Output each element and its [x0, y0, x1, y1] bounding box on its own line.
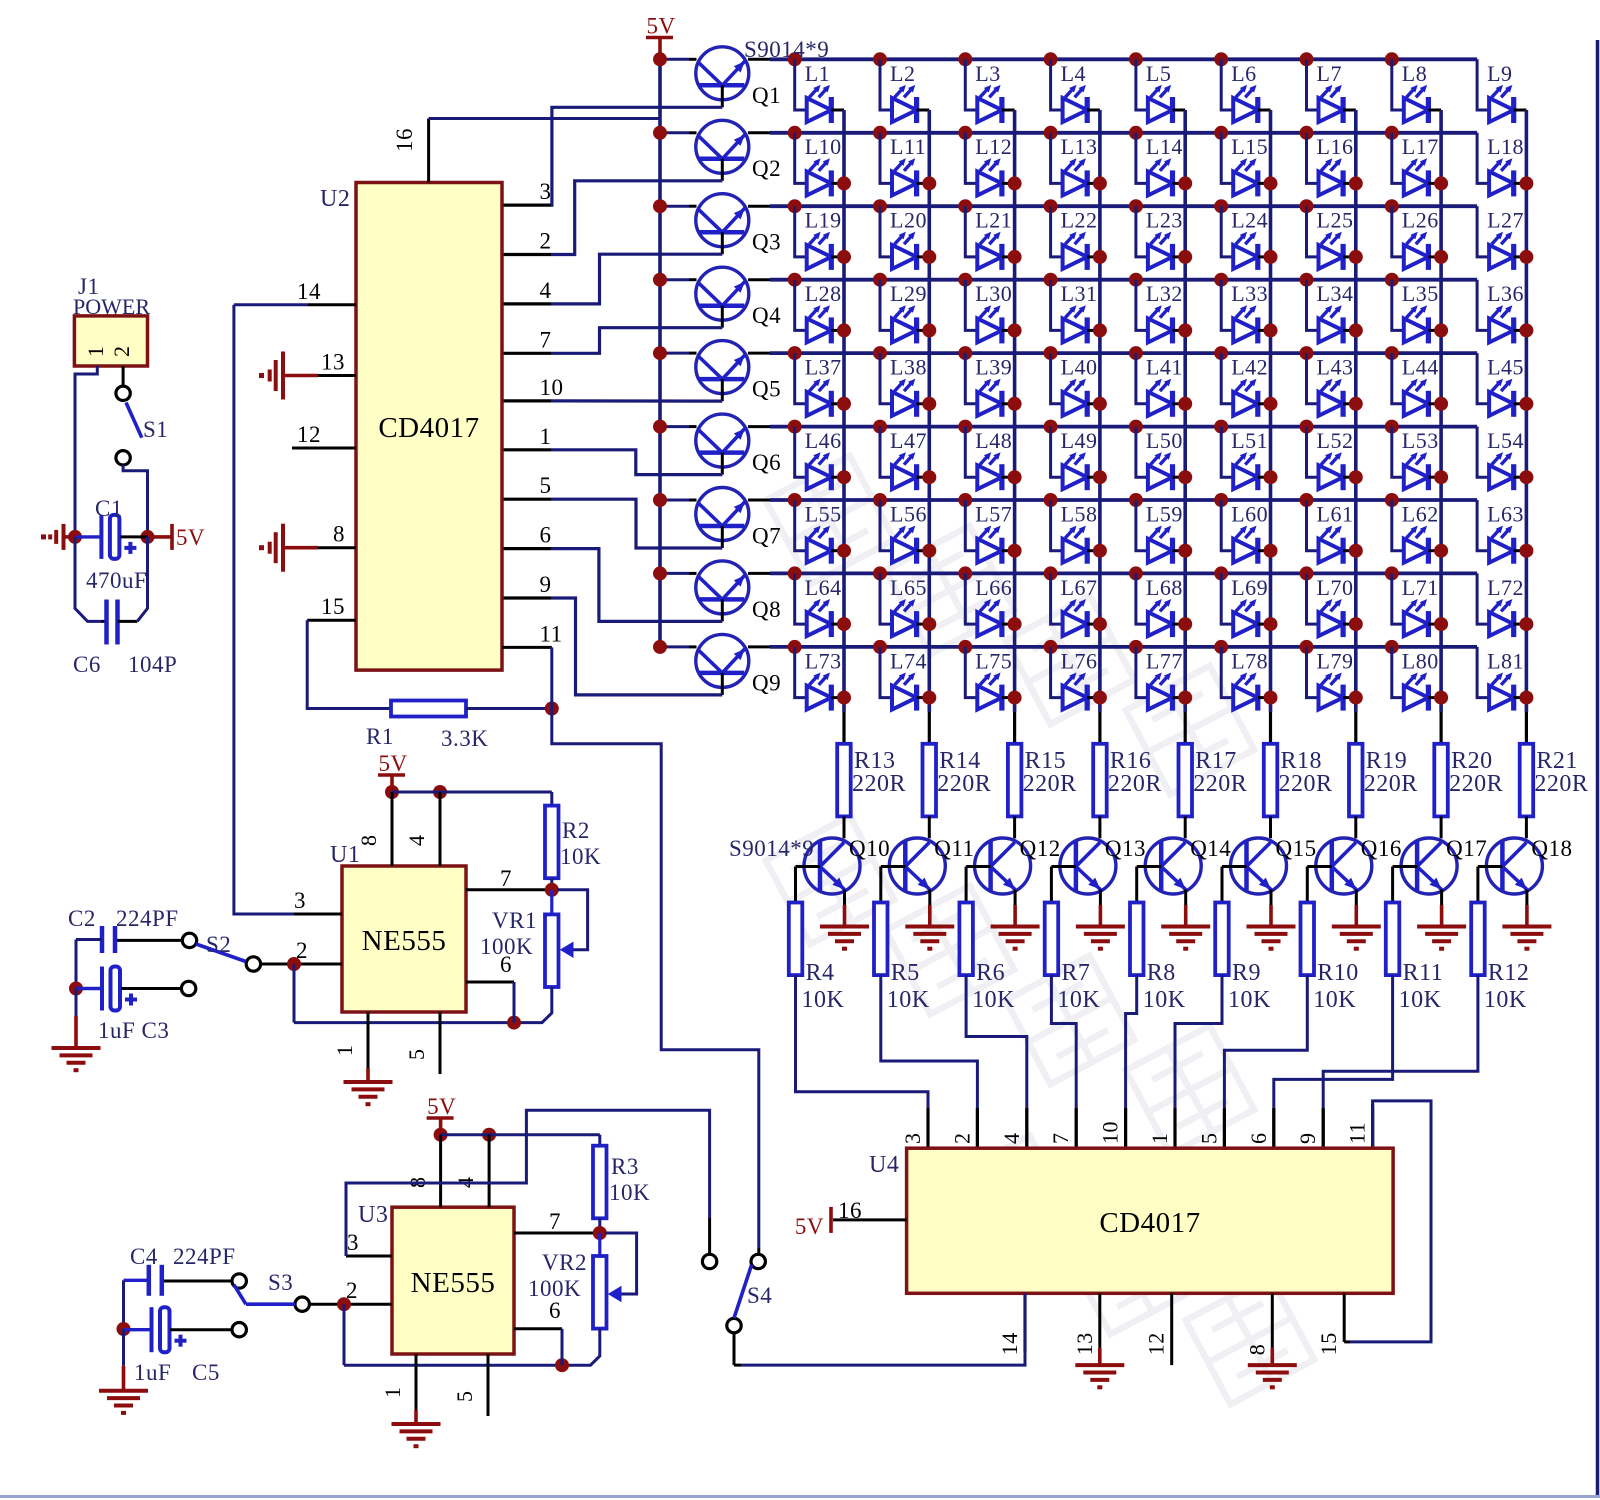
svg-text:R2: R2 [562, 818, 590, 843]
svg-text:L46: L46 [805, 428, 842, 453]
svg-text:L11: L11 [890, 134, 926, 159]
svg-text:220R: 220R [1108, 771, 1162, 797]
svg-text:L74: L74 [890, 648, 927, 673]
svg-text:Q2: Q2 [752, 156, 781, 181]
svg-text:L45: L45 [1487, 355, 1524, 380]
svg-text:L37: L37 [805, 355, 842, 380]
svg-text:3: 3 [900, 1133, 925, 1145]
svg-text:104P: 104P [128, 652, 177, 677]
svg-text:L41: L41 [1146, 355, 1183, 380]
svg-text:L72: L72 [1487, 575, 1524, 600]
svg-text:L60: L60 [1231, 502, 1268, 527]
svg-text:L57: L57 [975, 502, 1012, 527]
svg-text:R7: R7 [1061, 960, 1090, 986]
svg-text:L31: L31 [1061, 281, 1098, 306]
svg-text:Q15: Q15 [1276, 836, 1317, 861]
svg-text:220R: 220R [1534, 771, 1588, 797]
svg-text:Q3: Q3 [752, 230, 781, 255]
svg-text:Q4: Q4 [752, 303, 781, 328]
svg-text:224PF: 224PF [116, 906, 179, 931]
svg-text:L77: L77 [1146, 648, 1183, 673]
svg-text:L42: L42 [1231, 355, 1268, 380]
svg-text:7: 7 [1048, 1133, 1073, 1145]
svg-text:U2: U2 [320, 186, 350, 212]
svg-text:8: 8 [356, 835, 381, 847]
svg-text:R4: R4 [806, 960, 835, 986]
svg-text:L18: L18 [1487, 134, 1524, 159]
svg-text:8: 8 [333, 522, 345, 547]
svg-text:15: 15 [321, 594, 345, 619]
svg-text:L54: L54 [1487, 428, 1524, 453]
svg-text:L19: L19 [805, 208, 842, 233]
svg-text:L29: L29 [890, 281, 927, 306]
svg-text:5V: 5V [647, 14, 676, 39]
svg-text:C1: C1 [95, 496, 123, 521]
svg-text:220R: 220R [1193, 771, 1247, 797]
svg-text:L70: L70 [1317, 575, 1354, 600]
svg-text:L32: L32 [1146, 281, 1183, 306]
svg-text:R6: R6 [976, 960, 1005, 986]
svg-text:L14: L14 [1146, 134, 1183, 159]
svg-text:220R: 220R [1279, 771, 1333, 797]
svg-text:5V: 5V [379, 751, 408, 776]
svg-text:NE555: NE555 [362, 925, 447, 957]
svg-text:L73: L73 [805, 648, 842, 673]
svg-text:12: 12 [1144, 1332, 1169, 1355]
svg-text:220R: 220R [937, 771, 991, 797]
svg-text:10K: 10K [560, 844, 601, 869]
svg-text:10K: 10K [972, 987, 1015, 1013]
svg-text:L75: L75 [975, 648, 1012, 673]
svg-text:L22: L22 [1061, 208, 1098, 233]
svg-text:16: 16 [838, 1198, 862, 1223]
svg-text:L66: L66 [975, 575, 1012, 600]
svg-text:L4: L4 [1061, 61, 1086, 86]
svg-text:10: 10 [1098, 1121, 1123, 1144]
svg-text:Q16: Q16 [1361, 836, 1402, 861]
svg-text:L48: L48 [975, 428, 1012, 453]
svg-text:3: 3 [540, 179, 552, 204]
svg-text:5: 5 [1196, 1133, 1221, 1145]
svg-text:5: 5 [404, 1049, 429, 1061]
svg-text:L13: L13 [1061, 134, 1098, 159]
svg-text:L24: L24 [1231, 208, 1268, 233]
svg-text:R5: R5 [891, 960, 920, 986]
svg-text:C5: C5 [192, 1360, 220, 1385]
svg-text:6: 6 [549, 1298, 561, 1323]
svg-text:NE555: NE555 [411, 1267, 496, 1299]
svg-text:R8: R8 [1147, 960, 1176, 986]
svg-text:L8: L8 [1402, 61, 1427, 86]
svg-text:L56: L56 [890, 502, 927, 527]
svg-text:4: 4 [404, 835, 429, 847]
svg-text:L16: L16 [1317, 134, 1354, 159]
svg-text:L9: L9 [1487, 61, 1512, 86]
svg-text:S1: S1 [143, 417, 168, 442]
svg-text:220R: 220R [1023, 771, 1077, 797]
svg-text:8: 8 [1244, 1344, 1269, 1356]
svg-text:10K: 10K [802, 987, 845, 1013]
svg-text:L69: L69 [1231, 575, 1268, 600]
svg-text:L59: L59 [1146, 502, 1183, 527]
svg-text:L34: L34 [1317, 281, 1354, 306]
svg-text:1uF C3: 1uF C3 [98, 1018, 169, 1043]
svg-text:U4: U4 [869, 1152, 899, 1178]
svg-text:13: 13 [321, 350, 345, 375]
svg-text:R12: R12 [1488, 960, 1530, 986]
svg-text:R1: R1 [366, 724, 394, 749]
svg-text:1: 1 [83, 346, 108, 358]
svg-text:2: 2 [540, 229, 552, 254]
svg-text:470uF: 470uF [86, 568, 147, 593]
svg-text:L79: L79 [1317, 648, 1354, 673]
svg-text:C6: C6 [73, 652, 101, 677]
svg-text:Q17: Q17 [1446, 836, 1487, 861]
svg-text:L12: L12 [975, 134, 1012, 159]
svg-text:9: 9 [540, 572, 552, 597]
svg-text:220R: 220R [852, 771, 906, 797]
svg-text:5: 5 [540, 473, 552, 498]
svg-text:5V: 5V [427, 1094, 456, 1119]
svg-text:S9014*9: S9014*9 [744, 37, 829, 62]
svg-text:CD4017: CD4017 [1099, 1207, 1200, 1239]
svg-text:Q8: Q8 [752, 597, 781, 622]
svg-text:VR2: VR2 [542, 1250, 587, 1275]
svg-text:L21: L21 [975, 208, 1012, 233]
svg-text:L28: L28 [805, 281, 842, 306]
svg-text:L63: L63 [1487, 502, 1524, 527]
svg-text:R10: R10 [1317, 960, 1359, 986]
svg-text:L47: L47 [890, 428, 927, 453]
svg-text:Q11: Q11 [934, 836, 974, 861]
svg-text:14: 14 [997, 1332, 1022, 1355]
svg-text:5V: 5V [795, 1214, 824, 1239]
svg-text:C2: C2 [68, 906, 96, 931]
svg-text:6: 6 [540, 523, 552, 548]
svg-text:16: 16 [392, 128, 417, 152]
svg-text:L44: L44 [1402, 355, 1439, 380]
svg-text:L52: L52 [1317, 428, 1354, 453]
svg-text:POWER: POWER [73, 294, 150, 319]
svg-text:L81: L81 [1487, 648, 1524, 673]
svg-text:L17: L17 [1402, 134, 1439, 159]
svg-text:4: 4 [999, 1133, 1024, 1145]
svg-text:L53: L53 [1402, 428, 1439, 453]
svg-text:L61: L61 [1317, 502, 1354, 527]
svg-text:6: 6 [500, 952, 512, 977]
svg-text:10K: 10K [1399, 987, 1442, 1013]
svg-text:6: 6 [1246, 1133, 1271, 1145]
svg-text:1uF: 1uF [134, 1360, 171, 1385]
svg-text:10K: 10K [1484, 987, 1527, 1013]
svg-text:12: 12 [297, 422, 321, 447]
svg-text:15: 15 [1316, 1332, 1341, 1355]
svg-text:9: 9 [1295, 1133, 1320, 1145]
svg-text:L55: L55 [805, 502, 842, 527]
svg-text:L33: L33 [1231, 281, 1268, 306]
svg-text:L65: L65 [890, 575, 927, 600]
svg-text:11: 11 [540, 621, 563, 646]
svg-text:L39: L39 [975, 355, 1012, 380]
svg-text:L71: L71 [1402, 575, 1439, 600]
svg-text:Q14: Q14 [1190, 836, 1231, 861]
svg-text:1: 1 [380, 1387, 405, 1399]
svg-text:L25: L25 [1317, 208, 1354, 233]
svg-text:L58: L58 [1061, 502, 1098, 527]
svg-text:10K: 10K [609, 1180, 650, 1205]
svg-text:220R: 220R [1364, 771, 1418, 797]
svg-text:7: 7 [500, 866, 512, 891]
svg-text:5V: 5V [176, 525, 205, 550]
svg-text:5: 5 [452, 1391, 477, 1403]
svg-text:2: 2 [949, 1133, 974, 1145]
svg-text:Q13: Q13 [1105, 836, 1146, 861]
svg-text:Q10: Q10 [849, 836, 890, 861]
svg-text:3: 3 [294, 888, 306, 913]
svg-text:220R: 220R [1449, 771, 1503, 797]
svg-text:13: 13 [1072, 1332, 1097, 1355]
svg-text:L36: L36 [1487, 281, 1524, 306]
svg-text:R3: R3 [611, 1154, 639, 1179]
svg-text:CD4017: CD4017 [378, 412, 479, 444]
svg-text:L6: L6 [1231, 61, 1256, 86]
svg-text:L64: L64 [805, 575, 842, 600]
svg-text:L38: L38 [890, 355, 927, 380]
svg-text:L80: L80 [1402, 648, 1439, 673]
svg-text:Q6: Q6 [752, 450, 781, 475]
svg-text:7: 7 [540, 327, 552, 352]
svg-text:L67: L67 [1061, 575, 1098, 600]
svg-text:Q9: Q9 [752, 670, 781, 695]
svg-text:L62: L62 [1402, 502, 1439, 527]
svg-text:1: 1 [1147, 1133, 1172, 1145]
svg-text:Q5: Q5 [752, 377, 781, 402]
svg-text:10: 10 [540, 375, 564, 400]
svg-text:U3: U3 [358, 1202, 388, 1228]
svg-text:L35: L35 [1402, 281, 1439, 306]
svg-text:224PF: 224PF [173, 1244, 236, 1269]
svg-text:L78: L78 [1231, 648, 1268, 673]
svg-text:S4: S4 [747, 1283, 772, 1308]
svg-text:2: 2 [109, 346, 134, 358]
svg-text:L27: L27 [1487, 208, 1524, 233]
svg-text:L76: L76 [1061, 648, 1098, 673]
svg-text:L2: L2 [890, 61, 915, 86]
svg-text:7: 7 [549, 1209, 561, 1234]
svg-text:Q18: Q18 [1531, 836, 1572, 861]
svg-text:1: 1 [540, 424, 552, 449]
svg-text:L51: L51 [1231, 428, 1268, 453]
svg-text:2: 2 [346, 1278, 358, 1303]
svg-text:Q12: Q12 [1020, 836, 1061, 861]
svg-text:11: 11 [1345, 1122, 1370, 1144]
svg-text:4: 4 [540, 278, 552, 303]
svg-text:10K: 10K [1057, 987, 1100, 1013]
svg-text:L43: L43 [1317, 355, 1354, 380]
svg-text:C4: C4 [130, 1244, 158, 1269]
svg-text:R9: R9 [1232, 960, 1261, 986]
svg-text:L68: L68 [1146, 575, 1183, 600]
svg-text:VR1: VR1 [492, 908, 537, 933]
svg-text:L40: L40 [1061, 355, 1098, 380]
svg-text:R11: R11 [1403, 960, 1444, 986]
svg-text:L5: L5 [1146, 61, 1171, 86]
svg-text:L23: L23 [1146, 208, 1183, 233]
svg-text:10K: 10K [1313, 987, 1356, 1013]
svg-text:L50: L50 [1146, 428, 1183, 453]
svg-text:10K: 10K [1228, 987, 1271, 1013]
svg-text:L10: L10 [805, 134, 842, 159]
svg-text:3.3K: 3.3K [441, 726, 488, 751]
svg-text:L49: L49 [1061, 428, 1098, 453]
svg-text:3: 3 [347, 1230, 359, 1255]
svg-text:Q7: Q7 [752, 524, 781, 549]
svg-text:1: 1 [332, 1045, 357, 1057]
svg-text:L26: L26 [1402, 208, 1439, 233]
svg-text:L3: L3 [975, 61, 1000, 86]
svg-text:L15: L15 [1231, 134, 1268, 159]
svg-text:L30: L30 [975, 281, 1012, 306]
svg-text:10K: 10K [887, 987, 930, 1013]
svg-text:S9014*9: S9014*9 [729, 836, 814, 861]
svg-text:2: 2 [296, 938, 308, 963]
svg-text:10K: 10K [1143, 987, 1186, 1013]
svg-text:L20: L20 [890, 208, 927, 233]
svg-text:L1: L1 [805, 61, 830, 86]
svg-text:S2: S2 [206, 932, 231, 957]
svg-text:L7: L7 [1317, 61, 1342, 86]
svg-text:S3: S3 [268, 1270, 293, 1295]
svg-text:Q1: Q1 [752, 83, 781, 108]
svg-text:14: 14 [297, 279, 321, 304]
